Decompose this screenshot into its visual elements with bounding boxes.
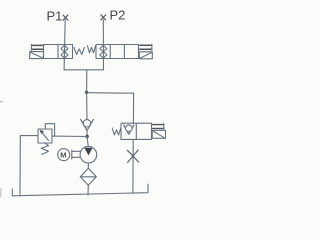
wire center drop (86, 70, 88, 93)
spring (valve V2) (87, 46, 95, 53)
svg-text:P2: P2 (110, 8, 126, 23)
relief valve RV1 (38, 124, 55, 143)
svg-text:M: M (60, 150, 66, 159)
spring (relief valve) (41, 143, 48, 154)
port P1 x-mark (63, 15, 68, 20)
wire relief right port (52, 135, 87, 137)
valve V1 check diamonds (61, 45, 68, 58)
wire filter to tank (87, 185, 89, 195)
wire center down to check valve (86, 92, 88, 119)
solenoid b (valve V2) (139, 44, 152, 59)
valve V2 check diamonds (100, 45, 107, 58)
filter F1 (80, 168, 96, 185)
spring (valve V3) (112, 128, 121, 135)
spring (valve V1) (74, 47, 84, 54)
wire pump to junction (87, 137, 88, 147)
junction J2 (85, 135, 88, 138)
edge artifact left (0, 101, 3, 197)
restrictor X (127, 150, 138, 162)
valve V3 ball check (124, 125, 134, 134)
wire pump to filter (87, 163, 89, 168)
wire to right branch (87, 93, 134, 124)
wire relief left port to drain (20, 136, 38, 196)
wire V3 down to tank (132, 139, 134, 193)
tank line (12, 184, 148, 196)
valve V1 body (44, 45, 73, 59)
valve V3 body (121, 123, 152, 139)
wire P2 down through valve V2 (102, 20, 104, 70)
junction J1 (85, 91, 88, 94)
wire below check valve (86, 131, 88, 137)
svg-text:P1: P1 (47, 9, 63, 24)
wire P1 down through valve V1 (64, 20, 65, 70)
solenoid a (valve V1) (30, 44, 44, 58)
motor M1 (58, 149, 70, 161)
pump P (80, 146, 97, 163)
valve V2 body (96, 45, 139, 59)
wire merge V1+V2 outlets (64, 69, 103, 71)
check valve CV1 (81, 119, 94, 130)
coupling shaft (72, 150, 80, 159)
solenoid c (valve V3) (152, 123, 165, 138)
port P2 x-mark (101, 15, 106, 20)
